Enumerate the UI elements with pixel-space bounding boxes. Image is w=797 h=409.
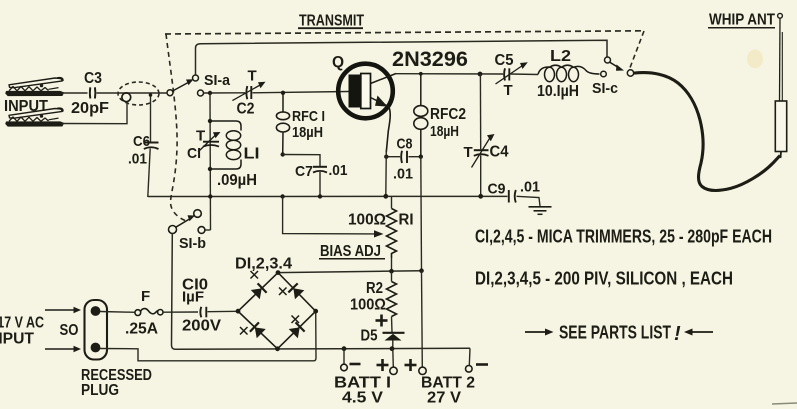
svg-text:RI: RI: [399, 212, 414, 229]
svg-text:T: T: [196, 128, 205, 145]
junction: [208, 91, 212, 95]
svg-text:SO: SO: [60, 322, 79, 339]
junction: [208, 194, 212, 198]
svg-text:R2: R2: [366, 280, 383, 297]
capacitor C8: [384, 136, 423, 183]
wire DC rail (bridge top to BATT2): [278, 271, 422, 273]
svg-text:IµF: IµF: [182, 289, 204, 306]
svg-text:SI-a: SI-a: [204, 72, 231, 89]
svg-text:BIAS ADJ: BIAS ADJ: [320, 243, 381, 260]
svg-text:WHIP ANT: WHIP ANT: [709, 12, 775, 29]
wire tank vertical: [209, 93, 212, 230]
svg-text:PLUG: PLUG: [81, 382, 119, 399]
wire transmit rail (S1-a up, across top, down to S1-c): [196, 40, 608, 75]
svg-text:20pF: 20pF: [71, 100, 109, 117]
wire C3 to S1-a: [97, 92, 168, 94]
wire emitter down to rail: [385, 150, 388, 196]
wire plug top pin to fuse: [100, 311, 136, 314]
wire top clip to C3: [62, 92, 88, 94]
transmit dashed boundary top: [165, 31, 644, 34]
svg-text:.01: .01: [520, 179, 540, 196]
svg-text:10.IµH: 10.IµH: [537, 83, 579, 100]
plus sign above D5: [376, 315, 388, 327]
junction: [281, 91, 285, 95]
capacitor C10: [182, 277, 239, 335]
capacitor C7: [283, 155, 348, 197]
svg-text:INPUT: INPUT: [0, 331, 35, 348]
inductor L1: [210, 121, 260, 189]
capacitor C9: [488, 179, 541, 207]
transmit dashed boundary right: [630, 31, 645, 69]
wire RFC2/C8 down to DC rail: [420, 157, 423, 271]
junction: [419, 268, 424, 273]
wire fuse to C10: [163, 311, 198, 313]
svg-text:100Ω: 100Ω: [350, 297, 386, 314]
svg-text:Q: Q: [332, 54, 344, 71]
junction: [318, 194, 322, 198]
resistor R2: [350, 271, 397, 332]
junction: [383, 194, 388, 199]
WHIP ANT label: [708, 12, 775, 29]
svg-text:4.5 V: 4.5 V: [342, 390, 384, 407]
117 V AC INPUT label: [0, 315, 44, 348]
svg-text:C8: C8: [397, 136, 413, 153]
resistor R1 (bias pot): [348, 196, 414, 271]
junction: [208, 119, 212, 123]
alligator clip (input bottom): [6, 108, 64, 126]
svg-text:C7: C7: [295, 163, 313, 180]
wire bottom clip to plug: [62, 102, 127, 124]
junction: [390, 346, 395, 351]
svg-text:SEE PARTS LIST: SEE PARTS LIST: [559, 323, 671, 343]
wire collector line: [395, 73, 503, 75]
capacitor C2 (trimmer): [232, 68, 265, 118]
svg-text:DI,2,3,4,5 - 200 PIV, SILICON: DI,2,3,4,5 - 200 PIV, SILICON , EACH: [475, 269, 733, 289]
svg-text:RFC I: RFC I: [292, 108, 325, 125]
svg-text:RFC2: RFC2: [430, 106, 466, 123]
wire S1-b down and battery rail: [172, 234, 471, 350]
capacitor C3: [71, 70, 109, 117]
bridge diode D1 (upper-left arm): [251, 283, 267, 299]
diode bridge D1,2,3,4: [236, 270, 319, 351]
svg-text:.09µH: .09µH: [217, 172, 257, 189]
svg-text:CI: CI: [187, 145, 201, 162]
arrow AC in bottom: [45, 346, 81, 352]
SEE PARTS LIST note: [525, 323, 713, 346]
svg-text:C4: C4: [490, 144, 509, 161]
svg-text:SI-b: SI-b: [179, 235, 206, 252]
battery BATT1 terminals: [341, 349, 397, 375]
junction battery rail: [342, 346, 347, 351]
junction: [208, 167, 212, 171]
svg-text:LI: LI: [244, 146, 260, 163]
wire emitter rail: [148, 195, 508, 197]
alligator clip (input top): [6, 78, 64, 96]
BATT 1 label: [334, 375, 391, 407]
svg-text:18µH: 18µH: [430, 123, 459, 140]
switch S1-a: [167, 72, 231, 96]
junction: [281, 152, 285, 156]
wire C2 to base: [253, 92, 349, 93]
bridge diode D4 (lower-right arm): [289, 322, 305, 338]
capacitor C6: [128, 93, 159, 197]
junction: [389, 269, 394, 274]
switch S1-b: [169, 210, 211, 252]
inductor L2: [537, 48, 600, 100]
ground: [529, 207, 552, 215]
svg-text:.25A: .25A: [125, 321, 158, 338]
svg-text:.01: .01: [393, 166, 413, 183]
svg-text:F: F: [141, 288, 150, 305]
capacitor C1 (trimmer): [187, 128, 221, 163]
fuse F .25A: [125, 288, 163, 338]
junction: [419, 72, 423, 76]
transistor Q 2N3296: [332, 47, 468, 152]
wire C5 to L2: [511, 73, 539, 76]
bridge diode D2 (upper-right arm): [288, 283, 304, 299]
svg-text:SI-c: SI-c: [592, 80, 618, 97]
whip antenna: [775, 13, 786, 158]
RECESSED PLUG label: [81, 367, 152, 399]
svg-text:2N3296: 2N3296: [392, 47, 468, 71]
junction: [280, 194, 284, 198]
svg-text:.01: .01: [128, 151, 147, 168]
transmit dashed boundary left: [166, 34, 188, 222]
inductor RFC1: [276, 93, 325, 155]
svg-text:C2: C2: [237, 101, 255, 118]
svg-text:T: T: [504, 82, 513, 99]
switch S1-c: [592, 57, 634, 97]
wire plug bottom pin to bridge right corner: [100, 312, 316, 361]
svg-text:18µH: 18µH: [292, 124, 323, 141]
phantom phone plug: [118, 82, 159, 105]
svg-text:T: T: [248, 68, 257, 85]
svg-text:INPUT: INPUT: [4, 98, 48, 115]
svg-text:.01: .01: [329, 162, 348, 179]
svg-text:TRANSMIT: TRANSMIT: [299, 13, 364, 30]
capacitor C5 (trimmer): [495, 52, 528, 99]
arrow AC in top: [45, 307, 81, 313]
svg-text:CI,2,4,5 - MICA TRIMMERS, 25 -: CI,2,4,5 - MICA TRIMMERS, 25 - 280pF EAC…: [475, 227, 772, 247]
svg-text:117 V AC: 117 V AC: [0, 315, 44, 332]
BATT 2 label: [421, 375, 475, 407]
junction: [478, 194, 483, 199]
bridge diode D3 (lower-left arm): [250, 322, 266, 338]
wire S1-a to C2: [204, 92, 246, 94]
svg-text:C3: C3: [84, 70, 102, 87]
BIAS ADJ label: [319, 243, 385, 260]
svg-text:100Ω: 100Ω: [348, 212, 386, 229]
bias wiper arrow: [283, 197, 384, 238]
svg-text:T: T: [464, 144, 473, 161]
svg-text:C9: C9: [488, 181, 506, 198]
svg-text:C6: C6: [133, 133, 150, 150]
svg-text:D5: D5: [361, 328, 378, 345]
svg-text:L2: L2: [550, 48, 571, 65]
bridge x marks: [240, 271, 299, 335]
diode D5: [361, 328, 405, 350]
svg-text:C5: C5: [495, 52, 514, 69]
capacitor C4 (trimmer): [464, 74, 509, 196]
svg-text:200V: 200V: [182, 318, 222, 335]
recessed plug SO: [85, 300, 108, 360]
svg-text:DI,2,3.4: DI,2,3.4: [235, 256, 292, 273]
battery BATT2 terminals: [405, 271, 489, 375]
junction: [478, 72, 483, 77]
svg-text:27 V: 27 V: [427, 390, 462, 407]
TRANSMIT label: [298, 13, 364, 30]
antenna feed wire: [633, 73, 780, 191]
svg-text:!: !: [674, 323, 681, 345]
inductor RFC2: [414, 74, 466, 157]
